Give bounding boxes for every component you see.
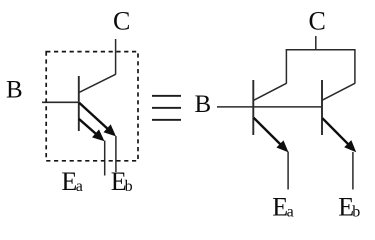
wire: Q3 collector vertical xyxy=(354,49,356,84)
emitter arrow Eb (Q1) xyxy=(79,103,116,137)
svg-text:C: C xyxy=(309,6,326,35)
emitter arrow (Q3) xyxy=(322,118,356,152)
wire: Q2 emitter stub xyxy=(287,152,289,190)
wire: Q3 collector diagonal xyxy=(322,83,355,100)
svg-text:B: B xyxy=(6,77,23,104)
svg-text:C: C xyxy=(113,6,130,35)
wire: left collector vertical xyxy=(115,39,117,75)
wire: C stub (right) xyxy=(315,36,317,50)
dashed equivalence boundary box xyxy=(46,52,138,161)
equivalence symbol (triple bar) xyxy=(152,95,181,121)
wire: Q2 collector diagonal xyxy=(253,83,286,100)
transistor Q2 base bar xyxy=(252,80,254,135)
emitter arrow Ea (Q1) xyxy=(79,119,105,142)
wire: Ea emitter stub (left) xyxy=(104,141,106,176)
transistor Q3 base bar xyxy=(321,80,323,135)
wire: right base lead xyxy=(217,106,322,108)
emitter arrow (Q2) xyxy=(254,118,289,153)
wire: Eb emitter stub (left) xyxy=(115,136,117,172)
wire: Q3 emitter stub xyxy=(352,152,354,190)
wire: left collector diagonal xyxy=(79,74,116,92)
wire: left base lead xyxy=(42,101,79,103)
svg-text:B: B xyxy=(195,91,212,118)
wire: Q2 collector vertical xyxy=(285,49,287,84)
transistor Q1 base bar xyxy=(78,76,80,131)
wire: collector top rail xyxy=(286,49,356,51)
